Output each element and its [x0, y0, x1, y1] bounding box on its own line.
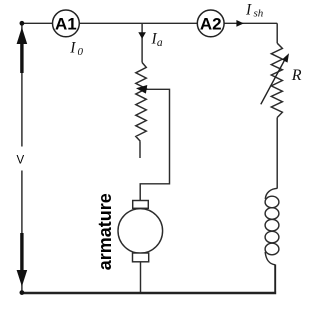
svg-text:A2: A2 [200, 14, 222, 33]
svg-text:armature: armature [95, 193, 115, 270]
svg-text:R: R [291, 67, 302, 84]
svg-text:A1: A1 [55, 14, 77, 33]
svg-text:I: I [245, 1, 252, 18]
svg-text:sh: sh [254, 8, 264, 20]
svg-text:V: V [17, 155, 25, 167]
svg-text:I: I [69, 40, 76, 57]
svg-text:0: 0 [78, 46, 84, 58]
svg-text:a: a [157, 37, 163, 49]
